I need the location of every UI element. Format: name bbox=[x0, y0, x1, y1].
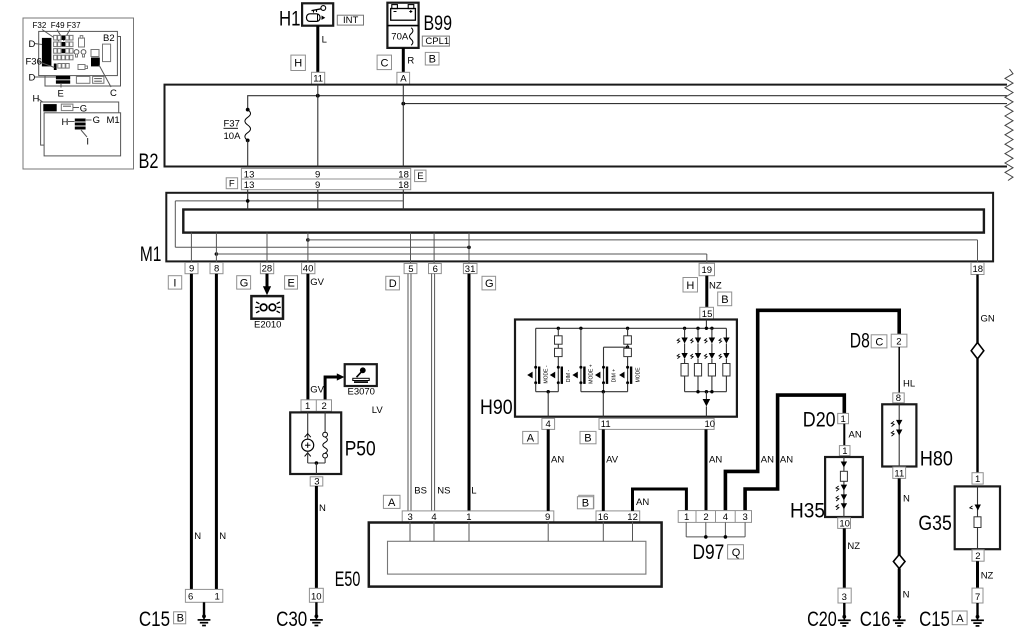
M1 drop to pin 28 bbox=[266, 233, 268, 263]
inset tall component right bbox=[103, 44, 111, 62]
B99 internal fuse divider bbox=[387, 25, 418, 27]
svg-text:NZ: NZ bbox=[709, 281, 722, 292]
wire HL D8 to H80 pin8 bbox=[899, 347, 915, 393]
svg-text:C20: C20 bbox=[807, 608, 837, 631]
inset fuse grid bbox=[54, 35, 73, 70]
connector D20 bbox=[803, 409, 836, 432]
svg-text:9: 9 bbox=[315, 180, 320, 191]
inset fuse box B2 main rect bbox=[39, 31, 118, 75]
lamp E2010 bbox=[251, 296, 283, 330]
svg-text:G: G bbox=[93, 115, 100, 126]
svg-text:E: E bbox=[417, 171, 423, 182]
svg-text:NZ: NZ bbox=[981, 571, 994, 582]
M1 drop to pin 8 bbox=[215, 233, 217, 263]
P50 internal bottom join bbox=[308, 461, 325, 474]
svg-text:31: 31 bbox=[465, 264, 476, 275]
inline connector rows B2/M1 bbox=[241, 168, 410, 189]
B2 pin A bbox=[397, 72, 410, 84]
row pin numbers 13 9 18 lower bbox=[244, 180, 409, 191]
svg-text:1: 1 bbox=[975, 474, 980, 485]
svg-text:A: A bbox=[400, 74, 407, 85]
resistor chain DIM- bbox=[555, 328, 563, 366]
M1 internal drop pin 9 top wire bbox=[317, 190, 319, 210]
svg-text:5: 5 bbox=[408, 264, 413, 275]
wire BS pin5 to E50 (screened) bbox=[408, 274, 427, 511]
svg-text:10: 10 bbox=[705, 419, 716, 430]
wire AN H90 pin4 to E50 pin9 bbox=[548, 429, 564, 511]
roof lamp control H35 bbox=[790, 457, 863, 523]
D97 label bbox=[693, 541, 744, 564]
svg-text:N: N bbox=[219, 531, 226, 542]
pushbutton MODE+ bbox=[572, 364, 594, 384]
svg-text:2: 2 bbox=[703, 512, 708, 523]
svg-text:1: 1 bbox=[841, 414, 846, 425]
H90 LED branch 2 bbox=[691, 328, 702, 391]
splice diamond C16 wire bbox=[893, 555, 905, 569]
svg-text:D8: D8 bbox=[850, 329, 870, 352]
svg-text:I: I bbox=[173, 278, 176, 290]
E50 internal drops bbox=[410, 522, 633, 541]
M1 pin 8 bbox=[210, 263, 223, 275]
inset label M1 bbox=[107, 115, 120, 126]
svg-text:H: H bbox=[33, 94, 40, 105]
boot lamp switch G35 bbox=[918, 486, 1000, 549]
inset M1 main rect bbox=[44, 113, 121, 156]
svg-text:10: 10 bbox=[311, 591, 322, 602]
connector letter B (H90 pin11) bbox=[580, 431, 596, 444]
svg-text:M1: M1 bbox=[140, 243, 162, 266]
P50 pin 3 bbox=[310, 476, 323, 487]
M1 pin 19 bbox=[699, 263, 714, 276]
svg-text:P50: P50 bbox=[345, 437, 376, 460]
ground C30 bbox=[276, 602, 323, 631]
wire N P50 to C30 bbox=[316, 486, 326, 588]
svg-text:11: 11 bbox=[601, 419, 611, 430]
svg-text:2: 2 bbox=[975, 551, 980, 562]
inset label E with leader bbox=[58, 84, 64, 100]
svg-text:10A: 10A bbox=[224, 131, 242, 142]
B2 internal wire from pin A to pin 18 bbox=[402, 85, 404, 167]
connector letter A (E50) bbox=[383, 495, 400, 509]
cigar lighter P50 bbox=[290, 412, 376, 474]
svg-text:HL: HL bbox=[903, 379, 915, 390]
H90 node to pin 11 bbox=[581, 384, 628, 417]
svg-text:18: 18 bbox=[973, 264, 984, 275]
connector letter D (pins 5 6) bbox=[386, 276, 400, 290]
H90 internal top rail bbox=[536, 320, 727, 330]
wire NZ G35 to C15 bbox=[978, 561, 994, 588]
svg-text:6: 6 bbox=[188, 592, 193, 603]
svg-text:M1: M1 bbox=[107, 115, 120, 126]
H90 node to pin 4 bbox=[536, 384, 559, 417]
svg-text:C15: C15 bbox=[139, 608, 170, 631]
svg-text:N: N bbox=[319, 503, 326, 514]
E50 inner module bbox=[388, 541, 646, 574]
M1 inner module bbox=[183, 210, 984, 233]
svg-text:16: 16 bbox=[598, 512, 609, 523]
connector D8 bbox=[850, 329, 887, 352]
wire R from B99 to B2 pin A bbox=[403, 48, 414, 72]
svg-text:AN: AN bbox=[636, 497, 649, 508]
svg-text:3: 3 bbox=[408, 512, 413, 523]
svg-text:9: 9 bbox=[545, 512, 550, 523]
wire NS pin6 to E50 (screened) bbox=[432, 274, 451, 511]
radio E50 bbox=[335, 523, 662, 592]
svg-text:AN: AN bbox=[551, 455, 564, 466]
svg-text:B: B bbox=[429, 53, 436, 65]
svg-text:D: D bbox=[389, 278, 397, 290]
pushbutton MODE- bbox=[527, 365, 549, 384]
H80 pin 11 bbox=[893, 467, 906, 479]
B2 internal feed rail 1 bbox=[248, 96, 1007, 110]
wire N H80 to C16 bbox=[899, 478, 910, 555]
svg-text:11: 11 bbox=[894, 468, 904, 479]
svg-text:6: 6 bbox=[433, 264, 438, 275]
wire AV H90 pin11 to E50 pin16 bbox=[603, 429, 618, 511]
svg-text:C30: C30 bbox=[276, 608, 307, 631]
connector D97 pin strip 1 2 4 3 bbox=[678, 511, 751, 523]
svg-text:13: 13 bbox=[244, 180, 255, 191]
svg-text:BS: BS bbox=[414, 486, 427, 497]
ground C15 right bbox=[919, 603, 984, 631]
C20 pin 3 bbox=[838, 588, 851, 603]
svg-text:1: 1 bbox=[466, 512, 471, 523]
svg-text:19: 19 bbox=[702, 265, 713, 276]
M1 internal trace pin 40 to pin 18 bbox=[306, 238, 977, 262]
svg-text:D: D bbox=[29, 39, 36, 50]
svg-text:2: 2 bbox=[896, 336, 901, 347]
inset labels H G I inside M1 bbox=[62, 115, 100, 148]
connector letter B (B99) bbox=[425, 52, 439, 65]
H90 LED bottom rail bbox=[685, 390, 727, 393]
inset fuse strip labels F32 F49 F37 bbox=[33, 21, 82, 30]
inset leader lines F32 F49 F37 bbox=[42, 30, 70, 42]
B99 fuse 70A bbox=[391, 28, 413, 45]
svg-text:G: G bbox=[240, 278, 249, 290]
cigar lighter icon E3070 bbox=[345, 364, 377, 397]
connector letter G (pin31) bbox=[482, 276, 496, 290]
row pin numbers 13 9 18 upper bbox=[244, 169, 409, 180]
svg-text:3: 3 bbox=[314, 476, 319, 487]
B2 pin 11 bbox=[312, 72, 325, 84]
svg-text:LV: LV bbox=[372, 405, 384, 416]
svg-text:C: C bbox=[381, 57, 389, 69]
svg-text:NZ: NZ bbox=[847, 541, 860, 552]
inset misc connector shapes bbox=[74, 36, 99, 70]
svg-text:F: F bbox=[229, 178, 235, 189]
M1 internal U trace to pin 31 bbox=[175, 201, 471, 249]
inset label F36 with leader bbox=[26, 57, 55, 68]
svg-text:D: D bbox=[29, 73, 36, 84]
svg-text:C: C bbox=[110, 88, 117, 99]
svg-text:Q: Q bbox=[732, 547, 741, 559]
H90 pin 15 bbox=[700, 307, 714, 320]
wire NZ pin19 to H90 bbox=[707, 276, 722, 308]
M1 drop to pin 31 bbox=[468, 233, 470, 264]
svg-text:H90: H90 bbox=[480, 396, 513, 419]
svg-text:8: 8 bbox=[896, 393, 901, 404]
P50 pin row 1 2 bbox=[301, 400, 332, 412]
B2 internal wire from pin 11 to pin 9 bbox=[317, 85, 319, 167]
switch MODE- column bbox=[535, 328, 537, 366]
svg-text:10: 10 bbox=[839, 518, 850, 529]
connector letter I bbox=[168, 276, 181, 290]
svg-text:D20: D20 bbox=[803, 409, 836, 432]
svg-text:INT: INT bbox=[343, 15, 359, 26]
svg-text:E2010: E2010 bbox=[254, 320, 281, 331]
svg-text:9: 9 bbox=[315, 169, 320, 180]
svg-text:G35: G35 bbox=[918, 512, 951, 535]
M1 pin 40 bbox=[302, 263, 315, 275]
inset label B2 bbox=[103, 33, 115, 44]
svg-text:F32 F49 F37: F32 F49 F37 bbox=[33, 21, 82, 30]
E50 pin strip A: 3 4 1 9 bbox=[402, 511, 554, 523]
B2 internal feed rail 2 bbox=[403, 103, 1007, 105]
svg-text:3: 3 bbox=[743, 512, 748, 523]
svg-text:A: A bbox=[956, 613, 964, 625]
C15 pin 7 bbox=[972, 588, 983, 603]
arrow from pin 28 to E2010 bbox=[263, 274, 271, 296]
svg-text:18: 18 bbox=[398, 180, 409, 191]
wire AN H90 pin10 to D97 pin2 bbox=[706, 429, 722, 510]
svg-text:E: E bbox=[58, 89, 64, 100]
wire P50 pin2 to E3070 with arrow bbox=[325, 373, 344, 399]
svg-text:GV: GV bbox=[310, 385, 324, 396]
H35 pin 1 bbox=[839, 446, 850, 457]
svg-text:CPL1: CPL1 bbox=[425, 36, 449, 47]
svg-text:B: B bbox=[721, 294, 728, 306]
M1 internal drop pin 18 top wire bbox=[402, 190, 404, 210]
svg-text:H1: H1 bbox=[279, 7, 301, 30]
svg-text:11: 11 bbox=[313, 74, 323, 85]
svg-text:B: B bbox=[584, 432, 591, 444]
svg-text:G: G bbox=[485, 278, 494, 290]
svg-text:AN: AN bbox=[709, 455, 722, 466]
M1 pin 18 bbox=[971, 263, 984, 275]
svg-text:AV: AV bbox=[606, 455, 619, 466]
inset label D upper with leader bbox=[29, 39, 43, 50]
M1 pin 5 bbox=[404, 264, 417, 275]
svg-text:MODE -: MODE - bbox=[544, 365, 550, 383]
wire GN M1 pin18 down bbox=[978, 275, 995, 344]
svg-text:4: 4 bbox=[431, 512, 436, 523]
svg-text:GV: GV bbox=[310, 277, 324, 288]
pushbutton DIM- bbox=[550, 366, 572, 384]
inset M1 rear rect bbox=[41, 102, 119, 145]
svg-text:MODE +: MODE + bbox=[589, 364, 595, 383]
svg-text:NS: NS bbox=[437, 486, 450, 497]
body computer M1 bbox=[140, 193, 993, 266]
svg-text:28: 28 bbox=[262, 264, 273, 275]
H35 pin 10 bbox=[838, 518, 851, 530]
ignition switch H1 bbox=[279, 3, 333, 30]
D20 pin 1 bbox=[838, 413, 849, 424]
svg-text:C16: C16 bbox=[860, 608, 891, 631]
svg-text:F37: F37 bbox=[224, 119, 240, 130]
fuse box B2 outline bbox=[139, 85, 1008, 173]
H90 pin strip 11 10 bbox=[599, 418, 715, 430]
svg-text:E3070: E3070 bbox=[348, 387, 375, 398]
inset location diagram frame bbox=[23, 18, 134, 169]
svg-text:DIM -: DIM - bbox=[566, 370, 572, 383]
inset black connector C bbox=[91, 58, 117, 100]
connector letter B (E50 pin16 lower) bbox=[577, 497, 593, 510]
pushbutton DIM+ bbox=[595, 366, 617, 384]
wire L pin31 to E50 bbox=[469, 274, 477, 511]
svg-text:40: 40 bbox=[303, 264, 314, 275]
H80 internals bbox=[891, 404, 902, 466]
svg-text:N: N bbox=[903, 494, 910, 505]
connector letter C bbox=[377, 55, 391, 70]
H90 pin 4 bbox=[542, 418, 555, 430]
P50 bulb branch bbox=[302, 411, 314, 463]
svg-text:B: B bbox=[582, 498, 589, 510]
inset fuse box B2 rear rect bbox=[45, 37, 121, 87]
svg-text:E: E bbox=[288, 278, 295, 290]
wire N diamond to C16 ground bbox=[899, 569, 909, 616]
label LV bbox=[372, 405, 384, 416]
inset M1 connector G outline bbox=[61, 104, 87, 115]
svg-text:D97: D97 bbox=[693, 541, 725, 564]
resistor chain MODE bbox=[624, 328, 632, 366]
svg-text:C: C bbox=[875, 336, 883, 348]
H90 LED branch 4 bbox=[719, 328, 730, 391]
M1 internal link line upper bbox=[175, 199, 403, 203]
M1 internal drop pin 13 wire bbox=[247, 190, 249, 210]
svg-text:AN: AN bbox=[761, 455, 774, 466]
E50 pin strip B: 16 12 bbox=[596, 511, 640, 523]
node on rail 2 at pin A wire bbox=[401, 102, 405, 106]
svg-text:H35: H35 bbox=[790, 500, 825, 523]
svg-text:9: 9 bbox=[189, 264, 194, 275]
svg-text:1: 1 bbox=[215, 592, 220, 603]
M1 internal trace pin 8 to pin 19 bbox=[215, 252, 707, 263]
H35 internals bbox=[836, 457, 847, 517]
M1 pin 9 bbox=[185, 263, 198, 275]
connector letter B (E50 right) bbox=[579, 495, 594, 509]
svg-text:AN: AN bbox=[849, 430, 862, 441]
B2 torn edge bbox=[1005, 69, 1013, 181]
switch MODE+ column bbox=[580, 328, 582, 366]
svg-text:H80: H80 bbox=[920, 447, 953, 470]
svg-text:A: A bbox=[527, 432, 535, 444]
H90 LED branch 3 bbox=[705, 328, 716, 391]
svg-text:12: 12 bbox=[627, 512, 638, 523]
wire AN to D97 pin3 via D20 branch bbox=[745, 395, 844, 511]
CPL1 tag bbox=[422, 36, 449, 47]
D8 pin 2 bbox=[891, 334, 907, 347]
ground C15 left bbox=[139, 602, 211, 631]
INT tag bbox=[337, 15, 363, 26]
svg-text:MODE: MODE bbox=[635, 367, 641, 383]
M1 drop to pin 9 bbox=[190, 233, 192, 263]
svg-text:15: 15 bbox=[702, 309, 713, 320]
svg-text:1: 1 bbox=[842, 446, 847, 457]
switch DIM+ column link bbox=[604, 346, 630, 367]
wire L from H1 to B2 pin 11 bbox=[318, 26, 327, 73]
svg-text:8: 8 bbox=[214, 264, 219, 275]
connector letter B (NZ) bbox=[718, 292, 732, 306]
svg-text:L: L bbox=[471, 486, 476, 497]
M1 drop to pin 5 bbox=[410, 233, 412, 264]
G35 pin 2 bbox=[972, 550, 984, 562]
svg-text:4: 4 bbox=[723, 512, 728, 523]
svg-text:3: 3 bbox=[842, 592, 847, 603]
svg-text:B99: B99 bbox=[424, 12, 453, 35]
M1 pin 31 bbox=[463, 264, 477, 275]
svg-text:E50: E50 bbox=[335, 568, 361, 591]
svg-text:1: 1 bbox=[684, 512, 689, 523]
svg-text:N: N bbox=[903, 590, 910, 601]
H1 key icon bbox=[307, 6, 326, 22]
svg-text:4: 4 bbox=[546, 419, 551, 430]
C30 pin 10 bbox=[309, 588, 323, 602]
svg-text:H: H bbox=[62, 117, 69, 128]
svg-text:AN: AN bbox=[780, 455, 793, 466]
svg-text:70A: 70A bbox=[391, 32, 409, 43]
svg-text:18: 18 bbox=[398, 169, 409, 180]
connector letter E bbox=[415, 170, 426, 182]
node on rail 1 at pin 11 wire bbox=[316, 94, 320, 98]
svg-text:B2: B2 bbox=[103, 33, 115, 44]
svg-text:N: N bbox=[194, 531, 201, 542]
G35 internals bbox=[970, 486, 981, 549]
B99 battery icon bbox=[391, 5, 416, 21]
connector letter A (H90 pin4) bbox=[523, 431, 538, 444]
fuse F37 10A bbox=[224, 108, 251, 143]
M1 pin 28 bbox=[260, 263, 273, 275]
H90 LED branch 1 bbox=[677, 328, 688, 391]
inset fuse E black pair bbox=[56, 76, 104, 84]
svg-text:I: I bbox=[86, 137, 89, 148]
M1 drop to pin 6 bbox=[433, 233, 435, 264]
ground C20 bbox=[807, 603, 851, 631]
connector letter G (pin28) bbox=[237, 276, 251, 290]
pushbutton MODE bbox=[619, 366, 641, 384]
svg-text:7: 7 bbox=[975, 592, 980, 603]
dashboard switch unit H90 bbox=[480, 320, 737, 420]
inset relay D black block bbox=[42, 38, 52, 67]
connector letter H (pin19) bbox=[683, 278, 698, 293]
wire GV pin40 to P50 bbox=[308, 274, 325, 400]
svg-text:H: H bbox=[294, 58, 302, 70]
svg-text:H: H bbox=[686, 280, 694, 292]
svg-text:2: 2 bbox=[322, 401, 327, 412]
wire N pin9 to C15 bbox=[191, 274, 201, 590]
svg-text:R: R bbox=[407, 56, 414, 67]
M1 pin 6 bbox=[429, 264, 442, 275]
B2 internal wire fuse to pin 13 bbox=[247, 140, 249, 166]
svg-text:GN: GN bbox=[981, 314, 995, 325]
wire N pin8 to C15 bbox=[216, 274, 226, 590]
ground C16 bbox=[860, 608, 906, 631]
splice diamond GN wire bbox=[971, 343, 984, 359]
H90 diode to pin 10 bbox=[703, 392, 711, 417]
svg-text:C15: C15 bbox=[919, 608, 950, 631]
D97 internal bridge bbox=[686, 522, 745, 538]
G35 pin 1 bbox=[972, 473, 983, 485]
inset M1 black connector H bbox=[43, 104, 56, 111]
connector letter H bbox=[291, 55, 306, 70]
H80 pin 8 bbox=[893, 393, 904, 404]
M1 drop to pin 40 bbox=[307, 233, 309, 263]
svg-text:A: A bbox=[388, 497, 396, 509]
svg-text:B2: B2 bbox=[139, 150, 159, 173]
svg-text:L: L bbox=[322, 35, 327, 46]
connector letter F bbox=[226, 178, 237, 190]
wire AN to D97 pin4 via D8 branch bbox=[725, 310, 899, 510]
inset label D lower with leader bbox=[29, 73, 57, 84]
